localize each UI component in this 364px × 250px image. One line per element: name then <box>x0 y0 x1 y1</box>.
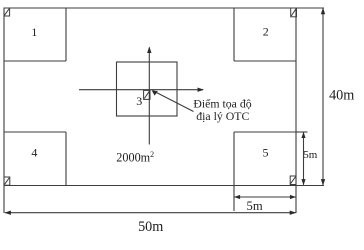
wire main plot bottom edge extended to 40m dimension <box>4 185 324 187</box>
subplot 3 center rectangle <box>117 62 178 116</box>
callout leader line to OTC point <box>153 91 194 112</box>
arrowhead right of crosshair horizontal <box>198 88 205 92</box>
50m dimension line <box>5 212 296 214</box>
corner marker top-left <box>4 8 10 16</box>
subplot 5 rectangle <box>234 131 296 133</box>
corner marker top-right <box>291 8 297 17</box>
wire main plot right edge extended down to 50m dimension <box>295 8 297 213</box>
subplot 4 rectangle <box>4 131 66 133</box>
arrowhead 5m vertical bottom <box>301 179 305 185</box>
crosshair vertical axis <box>148 48 150 145</box>
svg-text:50m: 50m <box>138 219 163 235</box>
arrowhead 50m left <box>4 211 10 215</box>
corner marker bottom-right <box>290 176 296 185</box>
svg-text:40m: 40m <box>329 88 354 104</box>
arrowhead 5m vertical top <box>301 132 305 138</box>
svg-text:4: 4 <box>31 145 37 159</box>
center marker OTC coordinate point <box>144 90 150 99</box>
40m dimension line <box>322 9 324 186</box>
arrowhead 50m right <box>290 211 297 215</box>
subplot 1 rectangle <box>65 8 67 61</box>
extension line for 5m vertical dimension <box>297 131 308 133</box>
arrowhead up at top of crosshair vertical <box>147 47 151 54</box>
svg-text:5m: 5m <box>247 199 263 213</box>
svg-text:2: 2 <box>263 25 269 39</box>
extension line for 5m horizontal dimension <box>233 186 235 212</box>
subplot 2 rectangle <box>233 8 235 61</box>
arrowhead of callout leader <box>152 90 158 95</box>
svg-text:3: 3 <box>136 94 142 108</box>
arrowhead 40m bottom <box>321 179 325 186</box>
arrowhead 5m horizontal left <box>234 195 240 199</box>
svg-text:địa lý OTC: địa lý OTC <box>196 109 249 123</box>
svg-text:5m: 5m <box>303 149 318 161</box>
wire main plot top edge extended to 40m dimension <box>4 7 324 9</box>
svg-text:2000m2: 2000m2 <box>116 150 154 164</box>
svg-text:5: 5 <box>263 145 269 159</box>
5m horizontal dimension line <box>235 196 296 198</box>
crosshair horizontal axis <box>79 89 203 91</box>
5m vertical dimension line <box>303 133 305 185</box>
wire main plot left edge extended down to 50m dimension <box>3 8 5 213</box>
arrowhead 40m top <box>321 8 325 15</box>
arrowhead 5m horizontal right <box>290 195 296 199</box>
svg-text:1: 1 <box>31 25 37 39</box>
corner marker bottom-left <box>4 177 10 185</box>
